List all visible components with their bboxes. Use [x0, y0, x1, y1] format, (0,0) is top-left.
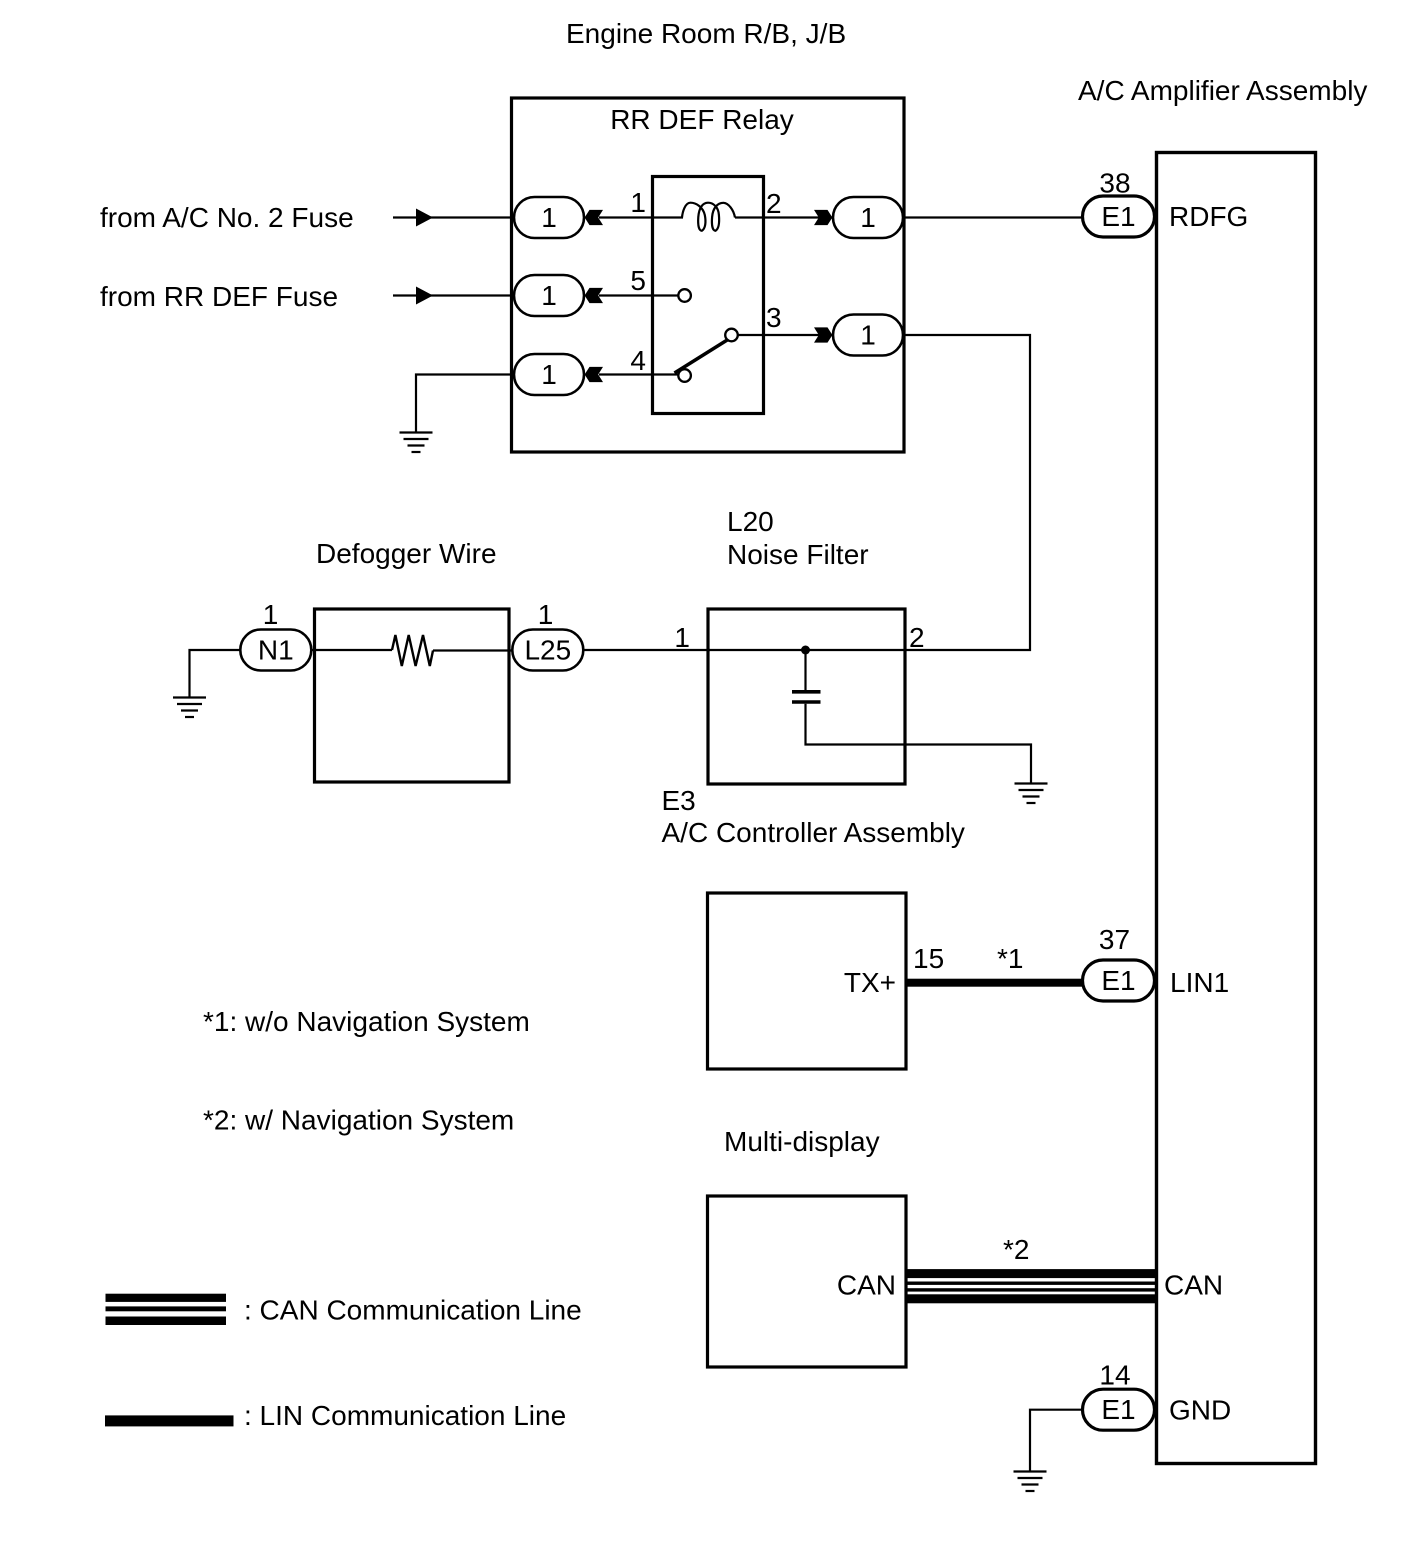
- svg-text:1: 1: [538, 599, 554, 630]
- legend LIN line symbol: [105, 1415, 234, 1426]
- capacitor lead to ground: [806, 704, 1032, 783]
- junction node: [801, 646, 810, 655]
- A/C controller box: [708, 893, 907, 1069]
- connector oval N1: [240, 630, 311, 671]
- defogger resistor: [392, 635, 433, 666]
- arrow source row1: [416, 209, 433, 227]
- ground defogger: [173, 698, 206, 718]
- svg-text:N1: N1: [258, 635, 294, 666]
- wire from A/C No.2 fuse: [393, 216, 514, 218]
- svg-text:*1: w/o Navigation System: *1: w/o Navigation System: [203, 1006, 530, 1037]
- connector oval relay pin4 left: [514, 354, 584, 395]
- svg-text:*1: *1: [997, 943, 1023, 974]
- svg-text:A/C Controller Assembly: A/C Controller Assembly: [662, 817, 965, 848]
- multi-display box: [708, 1196, 907, 1367]
- wire oval to coil: [599, 216, 683, 218]
- wire N1 to ground: [190, 650, 241, 697]
- legend CAN line symbol: [106, 1294, 227, 1325]
- svg-text:1: 1: [263, 599, 279, 630]
- svg-text:1: 1: [541, 280, 557, 311]
- defogger wire box: [315, 609, 510, 782]
- svg-text:15: 15: [913, 943, 944, 974]
- arrow into oval pin3: [814, 327, 832, 342]
- capacitor: [792, 692, 821, 702]
- relay inner box: [653, 177, 764, 414]
- svg-text:Multi-display: Multi-display: [724, 1126, 880, 1157]
- wire oval to switch pin4: [599, 373, 678, 375]
- ground noise filter: [1015, 784, 1048, 804]
- engine room R/B J/B box: [512, 98, 905, 452]
- svg-text:CAN: CAN: [837, 1270, 896, 1301]
- svg-text:LIN1: LIN1: [1170, 967, 1229, 998]
- wire E1 to ground: [1030, 1410, 1083, 1471]
- svg-text:1: 1: [541, 359, 557, 390]
- wire switch common to pin3 oval: [738, 334, 833, 336]
- svg-text:Engine Room R/B, J/B: Engine Room R/B, J/B: [566, 18, 846, 49]
- switch contact pin5: [678, 289, 691, 302]
- arrow source row2: [416, 287, 433, 305]
- svg-text:1: 1: [674, 622, 690, 653]
- LIN wire TX+ to E1: [906, 979, 1084, 987]
- svg-text:E1: E1: [1101, 1394, 1135, 1425]
- switch lever: [675, 340, 729, 374]
- svg-text:RR DEF Relay: RR DEF Relay: [610, 104, 794, 135]
- svg-text:TX+: TX+: [844, 967, 896, 998]
- svg-text:38: 38: [1099, 168, 1130, 199]
- wire inside noise filter: [708, 649, 905, 651]
- svg-text:Noise Filter: Noise Filter: [727, 539, 869, 570]
- noise filter box: [708, 609, 905, 784]
- svg-text:E1: E1: [1101, 965, 1135, 996]
- svg-text:A/C Amplifier Assembly: A/C Amplifier Assembly: [1078, 75, 1367, 106]
- connector oval E1 pin38: [1083, 196, 1155, 237]
- svg-text:*2: w/ Navigation System: *2: w/ Navigation System: [203, 1105, 514, 1136]
- wire pin3 oval to noise filter pin2: [903, 335, 1030, 650]
- svg-text:: LIN Communication Line: : LIN Communication Line: [244, 1400, 566, 1431]
- wire ground to relay pin4 oval: [416, 375, 514, 433]
- ground relay: [400, 433, 433, 453]
- svg-text:2: 2: [909, 622, 925, 653]
- svg-text:L25: L25: [524, 635, 571, 666]
- svg-text:L20: L20: [727, 506, 774, 537]
- wire N1 to resistor: [311, 649, 392, 651]
- svg-text:RDFG: RDFG: [1169, 201, 1248, 232]
- svg-text:14: 14: [1099, 1360, 1130, 1391]
- switch contact pin4: [678, 369, 691, 382]
- svg-text:from A/C No. 2 Fuse: from A/C No. 2 Fuse: [100, 202, 354, 233]
- relay coil: [682, 203, 735, 231]
- arrow into oval pin5: [585, 288, 603, 303]
- svg-text:from RR DEF Fuse: from RR DEF Fuse: [100, 281, 338, 312]
- svg-text:3: 3: [766, 302, 782, 333]
- svg-text:E1: E1: [1101, 201, 1135, 232]
- svg-text:1: 1: [860, 320, 876, 351]
- switch common contact: [725, 329, 738, 342]
- connector oval E1 pin14: [1083, 1389, 1155, 1430]
- connector oval relay pin3 right: [833, 315, 903, 356]
- A/C amplifier assembly box: [1157, 153, 1316, 1464]
- svg-text:: CAN Communication Line: : CAN Communication Line: [244, 1295, 582, 1326]
- wire oval to switch pin5: [599, 294, 678, 296]
- ground GND: [1014, 1472, 1047, 1492]
- connector oval relay pin5 left: [514, 275, 584, 316]
- svg-text:1: 1: [860, 202, 876, 233]
- svg-text:*2: *2: [1003, 1234, 1029, 1265]
- wire coil to pin2 oval: [735, 216, 833, 218]
- arrow into oval pin1: [585, 210, 603, 225]
- svg-text:5: 5: [630, 265, 646, 296]
- connector oval E1 pin37: [1083, 960, 1155, 1001]
- connector oval relay pin1 left: [514, 197, 584, 238]
- wire from RR DEF fuse: [393, 294, 514, 296]
- connector oval relay pin2 right: [833, 197, 903, 238]
- arrow into oval pin2: [814, 210, 832, 225]
- connector oval L25: [512, 630, 583, 671]
- CAN bus wire: [906, 1269, 1157, 1303]
- wire pin2 oval to E1 RDFG: [903, 216, 1083, 218]
- wire resistor to L25: [433, 649, 513, 651]
- arrow into oval pin4: [585, 367, 603, 382]
- wire L25 to noise filter pin1: [584, 649, 711, 651]
- capacitor lead top: [804, 650, 806, 690]
- svg-text:E3: E3: [662, 785, 696, 816]
- svg-text:CAN: CAN: [1164, 1270, 1223, 1301]
- svg-text:1: 1: [541, 202, 557, 233]
- svg-text:GND: GND: [1169, 1395, 1231, 1426]
- svg-text:4: 4: [630, 345, 646, 376]
- svg-text:Defogger Wire: Defogger Wire: [316, 538, 497, 569]
- svg-text:1: 1: [630, 187, 646, 218]
- svg-text:37: 37: [1099, 924, 1130, 955]
- svg-text:2: 2: [766, 188, 782, 219]
